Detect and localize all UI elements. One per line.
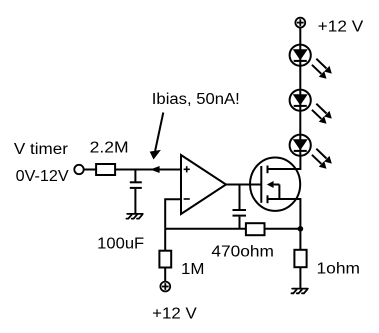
wire op-amp output to MOSFET gate	[226, 184, 261, 186]
Ibias current arrowhead on wire	[150, 166, 160, 173]
LED D2	[290, 90, 311, 111]
svg-text:+12 V: +12 V	[318, 18, 364, 35]
+12V bottom terminal	[160, 282, 170, 292]
wire C1 to ground	[134, 189, 136, 214]
wire junction to 1ohm	[299, 229, 301, 250]
wire D2 to D3	[299, 110, 301, 136]
MOSFET gate bar	[260, 166, 262, 203]
ground symbol under C1	[126, 214, 142, 219]
wire 1M top	[164, 229, 166, 251]
label "100uF"	[97, 236, 144, 253]
wire +12V to LED chain	[299, 28, 301, 46]
MOSFET drain contact bar	[267, 166, 269, 174]
wire R2.2M to op-amp + input	[115, 169, 181, 171]
op-amp + input symbol	[184, 166, 190, 172]
LED D1	[290, 44, 311, 67]
wire output tee down to capacitor C2	[239, 185, 241, 210]
svg-text:Ibias, 50nA!: Ibias, 50nA!	[152, 91, 240, 108]
label "470ohm"	[211, 244, 274, 261]
wire D1 to D2	[299, 65, 301, 91]
wire 1M to +12V terminal	[164, 268, 166, 282]
bottom feedback wire left segment	[165, 228, 246, 230]
svg-text:1M: 1M	[181, 261, 205, 278]
label "+12 V" top	[318, 18, 364, 35]
resistor R 1M box	[159, 251, 171, 268]
op-amp - input symbol	[184, 198, 190, 200]
op-amp U1 triangle	[181, 155, 226, 214]
annotation arrow for Ibias	[150, 113, 164, 160]
junction node dot	[298, 226, 304, 232]
MOSFET Q1 body circle	[250, 158, 300, 211]
+12V top terminal	[295, 18, 305, 28]
MOSFET source contact bar	[267, 195, 269, 203]
LED D1 light arrows	[312, 59, 332, 79]
bottom wire right segment to junction	[265, 228, 301, 230]
resistor R 2.2M box	[96, 164, 115, 175]
label "2.2M"	[90, 140, 129, 157]
LED D3	[290, 135, 311, 156]
svg-text:1ohm: 1ohm	[317, 260, 361, 277]
svg-text:2.2M: 2.2M	[90, 140, 129, 157]
wire op-amp minus input feedback	[165, 199, 181, 229]
label "+12 V" bottom	[152, 306, 197, 323]
label "V timer"	[14, 141, 68, 158]
MOSFET source wire	[268, 199, 301, 229]
label "1ohm"	[317, 260, 361, 277]
svg-text:V timer: V timer	[14, 141, 68, 158]
wire junction down to capacitor C1	[134, 170, 136, 182]
svg-text:100uF: 100uF	[97, 236, 144, 253]
label "1M"	[181, 261, 205, 278]
svg-text:+12 V: +12 V	[152, 306, 197, 323]
MOSFET drain wire	[268, 156, 301, 170]
MOSFET body arrow	[267, 181, 280, 199]
capacitor C1 100uF plates	[130, 182, 142, 188]
svg-text:0V-12V: 0V-12V	[16, 168, 70, 185]
capacitor C2 plates	[233, 210, 247, 216]
resistor R 470ohm box	[246, 223, 265, 235]
ground symbol under 1ohm	[291, 289, 307, 294]
resistor R 1ohm box	[294, 250, 306, 267]
input terminal circle	[74, 165, 83, 174]
wire 1ohm to ground	[299, 267, 301, 288]
LED D3 light arrows	[312, 149, 332, 169]
svg-text:470ohm: 470ohm	[211, 244, 274, 261]
label "Ibias, 50nA!"	[152, 91, 240, 108]
wire C2 to bottom wire	[239, 217, 241, 229]
LED D2 light arrows	[312, 104, 332, 124]
label "0V-12V"	[16, 168, 70, 185]
wire terminal to R2.2M	[84, 169, 96, 171]
